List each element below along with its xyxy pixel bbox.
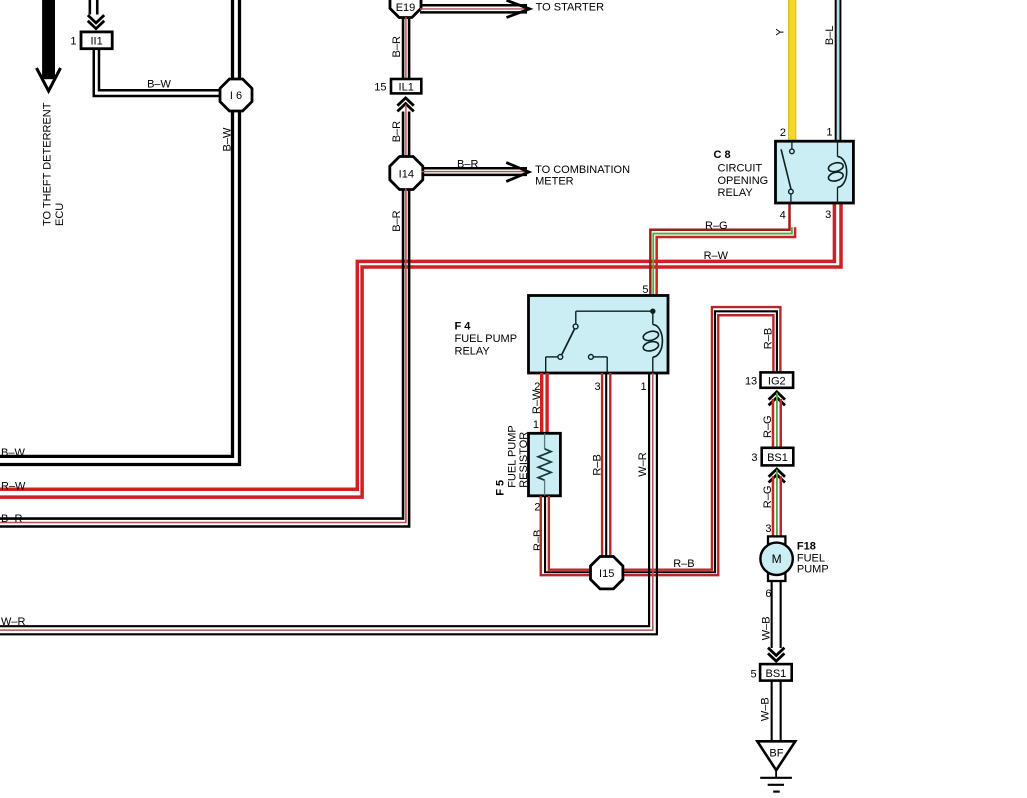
pin 3 of F18 [765,523,771,535]
chevron arrow below BS1 [769,469,785,483]
pin 3 of C8 [825,209,831,221]
svg-text:B–L: B–L [824,26,836,46]
label W-R at left edge [1,616,26,628]
pin 2 of F5 [534,502,540,514]
svg-text:15: 15 [374,81,386,93]
label TO THEFT DETERRENT ECU [42,102,67,226]
svg-text:F 5: F 5 [495,480,507,496]
label R-W on main red wire [704,250,729,262]
svg-text:W–B: W–B [761,616,773,640]
wire to starter with arrowhead [420,0,530,17]
wire R-G from C8 pin 4 to F4 pin 5 [650,203,795,296]
svg-text:R–B: R–B [762,328,774,349]
svg-text:Y: Y [774,28,786,36]
label R-W rotated at F4 pin 2 [531,389,543,414]
F4 internal top line and node [576,309,656,314]
junction E19 [390,0,421,18]
label F5 fuel pump resistor rotated [495,425,531,496]
wire R-W from F4 pin 2 to F5 [542,373,547,433]
ground symbol [760,770,792,791]
motor F18 fuel pump [760,536,792,581]
label 1 at F5 pin 1 [533,419,539,431]
arrow to theft deterrent ECU [37,0,61,91]
junction I14 [390,157,423,190]
svg-text:R–G: R–G [762,486,774,509]
svg-text:C 8: C 8 [714,149,731,161]
wire Y into C8 pin 2 [788,0,796,141]
F4 switch [546,311,608,373]
pin 15 of IL1 [374,81,386,93]
chevron arrow below IG2 [769,392,785,406]
F5 resistor element [538,433,551,496]
ground BF triangle [757,741,795,770]
svg-text:W–R: W–R [637,452,649,477]
svg-text:B–W: B–W [147,79,171,91]
label F4 fuel pump relay [455,321,518,358]
svg-text:R–W: R–W [531,389,543,414]
svg-text:1: 1 [640,381,646,393]
relay F4 box [529,296,669,374]
svg-text:CIRCUIT: CIRCUIT [718,163,763,175]
svg-text:I14: I14 [399,169,414,181]
pin 6 of F18 [765,588,771,600]
svg-text:3: 3 [751,452,757,464]
label F18 fuel pump [797,541,829,576]
svg-text:B–R: B–R [1,513,22,525]
svg-text:F18: F18 [797,541,816,553]
pin 1 of C8 [826,127,832,139]
wire B-W from I6 down and left to edge [0,110,240,465]
label B-W rotated beside wire below I6 [222,127,234,151]
svg-text:B–R: B–R [391,121,403,142]
label B-W on II1-I6 wire [147,79,171,91]
junction I6 [220,79,252,111]
wire B-W from II1 to I6 [94,49,221,96]
svg-text:PUMP: PUMP [797,564,829,576]
svg-text:E19: E19 [396,2,416,14]
svg-text:TO THEFT DETERRENT: TO THEFT DETERRENT [42,102,54,226]
label R-G rotated IG2-BS1 [762,415,774,438]
label W-B rotated pump-BS1 [761,616,773,640]
wire B-R from I14 down to left edge [0,189,409,527]
svg-text:4: 4 [780,210,786,222]
svg-text:B–W: B–W [1,447,25,459]
svg-text:F 4: F 4 [455,321,472,333]
svg-text:R–B: R–B [532,530,544,551]
pin 4 of C8 [780,210,786,222]
wire R-B from F5 pin 2 to I15 [541,496,592,575]
connector IL1 [391,79,421,94]
label B-R on combination meter wire [457,158,478,170]
chevron arrow into IL1 [397,98,413,112]
pin 3 of F4 [594,381,600,393]
pin 2 of F4 [534,381,540,393]
svg-text:IG2: IG2 [768,376,786,388]
svg-text:OPENING: OPENING [718,175,769,187]
junction I15 [591,557,623,589]
svg-text:1: 1 [826,127,832,139]
svg-text:W–R: W–R [1,616,26,628]
connector BS1 lower [760,664,792,681]
svg-text:RESISTOR: RESISTOR [518,432,530,488]
svg-text:3: 3 [765,523,771,535]
pin 1 of II1 [70,36,76,48]
svg-text:13: 13 [745,375,757,387]
wire W-B from F18 to BS1 lower [772,581,781,648]
svg-text:BF: BF [769,748,783,760]
wire R-B from I15 right up and over to IG2 [622,307,780,575]
svg-text:1: 1 [70,36,76,48]
wire feed arrow into II1 [88,0,104,29]
label R-B left of I15 right wire [673,558,694,570]
svg-text:R–G: R–G [762,415,774,438]
wire W-B from BS1 lower to BF [772,681,781,742]
svg-text:ECU: ECU [54,203,66,226]
connector IG2 [761,372,794,387]
label C8 circuit opening relay [714,149,769,199]
svg-text:METER: METER [535,175,574,187]
label B-W at left edge [1,447,25,459]
svg-text:R–B: R–B [592,454,604,475]
wire R-G from IG2 to BS1 [773,393,781,448]
svg-text:3: 3 [594,381,600,393]
svg-text:B–R: B–R [391,210,403,231]
svg-text:R–B: R–B [673,558,694,570]
wire B-R from IL1 chevron to I14 [403,105,409,159]
label R-B beside loop wire [762,328,774,349]
svg-text:FUEL PUMP: FUEL PUMP [455,333,518,345]
label R-B rotated on pin 3 wire [592,454,604,475]
svg-text:RELAY: RELAY [718,187,754,199]
label W-B rotated BS1-BF [760,697,772,721]
svg-text:B–W: B–W [222,127,234,151]
svg-text:RELAY: RELAY [455,346,491,358]
svg-text:BS1: BS1 [767,452,788,464]
pin 1 of F4 [640,381,646,393]
label B-R at left edge [1,513,22,525]
label W-R rotated on pin 1 wire [637,452,649,477]
connector BS1 upper [762,448,794,466]
wire W-R from F4 pin 1 down to left edge [0,373,657,634]
label TO STARTER [536,1,605,13]
label R-B rotated below F5 [532,530,544,551]
label B-R between IL1 and I14 [391,121,403,142]
svg-text:2: 2 [780,127,786,139]
label 5 at F4 pin 5 [642,284,648,296]
svg-text:R–W: R–W [704,250,729,262]
svg-text:M: M [772,552,782,566]
svg-text:II1: II1 [90,36,102,48]
svg-text:B–R: B–R [391,36,403,57]
label TO COMBINATION METER [535,164,630,187]
connector II1 [81,32,112,49]
svg-text:3: 3 [825,209,831,221]
C8 coil [828,141,847,203]
F4 coil [642,311,662,373]
wire B-W top feed above I6 [233,0,240,81]
svg-text:I15: I15 [599,568,614,580]
chevron arrow into BS1 lower [768,648,784,662]
wire R-W main from C8 pin 3 to left edge [0,203,841,497]
wire R-B from F4 pin 3 to I15 [602,373,610,558]
svg-text:TO COMBINATION: TO COMBINATION [535,164,630,176]
pin 3 of BS1 [751,452,757,464]
resistor F5 box [529,433,561,496]
wire B-R from E19 to IL1 [403,17,409,79]
svg-text:I 6: I 6 [230,90,242,102]
svg-text:B–R: B–R [457,158,478,170]
label R-W at left edge [1,481,26,493]
svg-text:BS1: BS1 [766,668,787,680]
wire R-G from BS1 to fuel pump [773,470,781,537]
label R-G rotated BS1-pump [762,486,774,509]
svg-text:5: 5 [750,668,756,680]
pin 13 of IG2 [745,375,757,387]
svg-text:6: 6 [765,588,771,600]
svg-text:1: 1 [533,419,539,431]
svg-text:R–G: R–G [705,220,728,232]
pin 2 of C8 [780,127,786,139]
wire B-L into C8 pin 1 [836,0,841,141]
label B-R below I14 [391,210,403,231]
svg-text:FUEL PUMP: FUEL PUMP [507,425,519,488]
C8 switch contact from pin 2 [781,141,794,203]
relay C8 box [776,141,854,203]
label R-G on pin4 wire [705,220,728,232]
label B-L rotated [824,26,836,46]
pin 5 of BS1 lower [750,668,756,680]
svg-text:W–B: W–B [760,697,772,721]
svg-text:IL1: IL1 [399,82,414,94]
svg-text:TO STARTER: TO STARTER [536,1,605,13]
label B-R between E19 and IL1 [391,36,403,57]
label Y rotated [774,28,786,36]
svg-text:R–W: R–W [1,481,26,493]
wire to combination meter with arrowhead [422,163,529,182]
